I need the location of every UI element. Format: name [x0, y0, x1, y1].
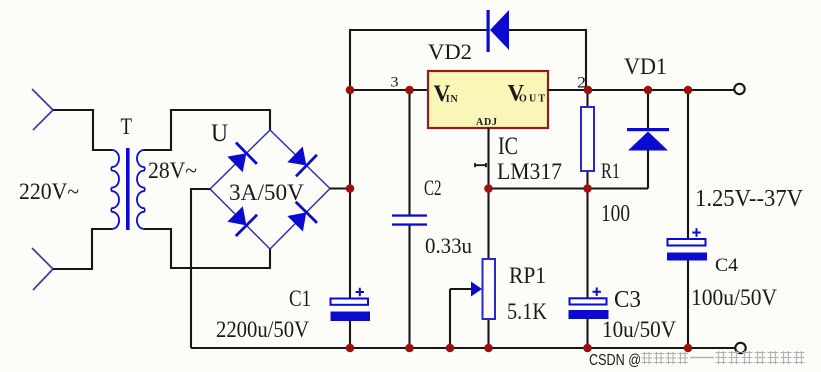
wire secondary top to bridge — [144, 110, 270, 150]
svg-text:C3: C3 — [614, 287, 641, 313]
wire bottom ground rail — [191, 347, 735, 349]
pin 1 tick mark — [475, 163, 486, 167]
svg-text:5.1K: 5.1K — [507, 299, 547, 324]
capacitor C1 — [331, 288, 371, 321]
RP1 wiper arrow — [471, 282, 482, 297]
wire C4 branch — [687, 90, 689, 348]
svg-text:R1: R1 — [601, 158, 620, 183]
node junction dot 2 — [405, 86, 414, 95]
capacitor C2 — [392, 214, 427, 225]
svg-text:IN: IN — [446, 94, 459, 105]
node junction dot 1 — [346, 86, 355, 95]
svg-text:3A/50V: 3A/50V — [229, 180, 304, 205]
node junction dot 12 — [484, 344, 493, 353]
svg-text:2: 2 — [577, 75, 586, 92]
svg-text:2200u/50V: 2200u/50V — [216, 317, 309, 342]
wire C3 branch — [586, 189, 588, 349]
svg-text:CSDN @: CSDN @ — [589, 352, 641, 369]
bridge rectifier U diamond — [210, 130, 330, 249]
bridge diode bottom-left D3 — [227, 206, 257, 236]
svg-text:10u/50V: 10u/50V — [602, 317, 676, 342]
wire primary bottom — [53, 229, 112, 269]
wire ADJ horizontal bus — [489, 187, 649, 189]
wire RP1 wiper — [450, 289, 471, 348]
svg-text:C2: C2 — [424, 175, 442, 200]
node junction dot 10 — [405, 344, 414, 353]
wire ADJ pin down — [487, 128, 489, 348]
svg-text:0.33u: 0.33u — [425, 233, 472, 258]
svg-text:220V~: 220V~ — [19, 179, 79, 204]
bridge diode top-left D1 — [227, 143, 257, 173]
wire C2 branch — [408, 90, 410, 348]
diode VD2 — [487, 10, 510, 52]
svg-text:3: 3 — [391, 75, 399, 91]
resistor R1 — [581, 107, 594, 171]
watermark chinese glyphs — [642, 351, 805, 364]
bridge diode top-right D2 — [287, 147, 317, 177]
wire VD1 branch — [647, 90, 649, 189]
AC input terminal top — [32, 89, 53, 130]
wire R1 branch — [586, 90, 588, 189]
svg-text:VD1: VD1 — [624, 54, 667, 79]
node junction dot 9 — [346, 344, 355, 353]
IC LM317 regulator body U1 — [428, 71, 548, 128]
node junction dot 5 — [684, 86, 693, 95]
node junction dot 3 — [584, 86, 593, 95]
capacitor C3 — [569, 288, 609, 320]
capacitor C4 — [667, 228, 707, 260]
svg-text:U: U — [211, 120, 228, 147]
transformer T primary winding — [111, 150, 119, 229]
svg-text:OUT: OUT — [519, 93, 545, 104]
svg-text:100: 100 — [601, 201, 630, 227]
wire secondary bottom to bridge — [144, 229, 270, 268]
node junction dot 14 — [684, 344, 693, 353]
node junction dot 13 — [583, 344, 592, 353]
transformer T secondary winding — [137, 150, 145, 229]
svg-text:RP1: RP1 — [509, 263, 546, 288]
bridge diode bottom-right D4 — [287, 202, 317, 232]
svg-text:1.25V--37V: 1.25V--37V — [695, 186, 804, 212]
svg-text:LM317: LM317 — [497, 159, 562, 184]
AC input terminal bottom — [32, 248, 53, 290]
svg-text:28V~: 28V~ — [148, 158, 197, 183]
output terminal positive — [734, 84, 744, 94]
svg-text:C4: C4 — [715, 255, 739, 276]
wire primary top — [53, 110, 112, 150]
svg-text:ADJ: ADJ — [476, 117, 497, 128]
svg-text:C1: C1 — [289, 286, 311, 311]
potentiometer RP1 body — [483, 259, 496, 319]
wire VD2 branch loop — [350, 30, 586, 90]
svg-text:100u/50V: 100u/50V — [691, 285, 777, 310]
node junction dot 7 — [484, 184, 493, 193]
svg-text:T: T — [121, 114, 133, 139]
node junction dot 4 — [644, 86, 653, 95]
wire node 2 rail to output — [548, 89, 735, 91]
node junction dot 8 — [583, 184, 592, 193]
node junction dot 6 — [346, 184, 355, 193]
node junction dot 11 — [446, 344, 455, 353]
wire bridge negative to bottom rail — [191, 189, 210, 348]
wire bridge positive output — [330, 187, 350, 189]
svg-text:IC: IC — [498, 133, 518, 160]
wire main positive rail vertical — [349, 90, 351, 348]
diode VD1 — [627, 128, 669, 151]
output terminal negative — [735, 343, 745, 353]
svg-text:VD2: VD2 — [428, 39, 472, 64]
transformer T core — [126, 148, 130, 230]
wire node 3 rail — [350, 89, 428, 91]
